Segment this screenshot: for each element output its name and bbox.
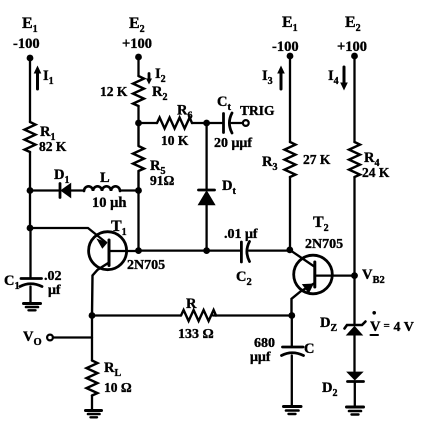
label 10 uh: [92, 195, 126, 211]
wire RL to ground: [91, 396, 93, 410]
svg-text:=: =: [384, 320, 390, 332]
wire R2 to junction: [137, 106, 139, 123]
svg-text:-100: -100: [13, 36, 40, 52]
node junction Dt / base line: [203, 247, 210, 254]
resistor R6: [157, 118, 192, 129]
svg-text:24 K: 24 K: [362, 165, 390, 180]
label E2 +100 right: [337, 14, 367, 55]
node TRIG input terminal: [243, 120, 249, 126]
label VB2: [362, 267, 385, 286]
resistor RL: [87, 361, 98, 396]
wire rail E2-right to VB2: [353, 177, 355, 276]
node VO output terminal: [47, 335, 53, 341]
wire rail E1-right to T2: [289, 177, 291, 250]
svg-text:μf: μf: [48, 283, 61, 298]
node junction L/R5: [135, 187, 142, 194]
svg-text:+100: +100: [122, 36, 152, 52]
label D1: [54, 167, 69, 186]
label R1 82 K: [39, 124, 67, 154]
label R2: [152, 84, 167, 103]
current arrow I3: [277, 66, 285, 90]
label T2: [313, 214, 329, 234]
node junction R3 / C2 / T2 collector: [286, 247, 293, 254]
label .02 uf: [44, 269, 62, 298]
label 12 K: [100, 84, 128, 99]
node VB2 junction: [351, 272, 358, 279]
transistor T2 collector lead: [290, 250, 314, 266]
label I3: [262, 68, 273, 87]
ground D2: [347, 407, 364, 415]
wire rail E2-left top: [137, 57, 139, 76]
wire base line Dt to C2: [207, 249, 240, 251]
label Dt: [222, 178, 236, 197]
svg-text:V: V: [370, 319, 381, 335]
svg-text:12 K: 12 K: [100, 84, 128, 99]
wire rail E1-right top: [289, 56, 291, 142]
wire R node to resistor R: [92, 314, 181, 316]
resistor R3: [285, 142, 296, 177]
wire Ct junction down to Dt: [205, 123, 207, 189]
label TRIG: [240, 103, 275, 118]
current arrow I2: [146, 74, 152, 85]
wire R6 to Ct junction: [192, 122, 207, 124]
node junction R / T2 emitter / C: [288, 312, 295, 319]
node junction T1 emitter wire: [27, 225, 34, 232]
svg-text:20 μμf: 20 μμf: [214, 136, 252, 151]
label T1: [111, 218, 127, 238]
wire VB2 to DZ: [353, 276, 355, 324]
label C2: [236, 269, 252, 288]
label 27 K: [303, 152, 331, 167]
svg-text:.01 μf: .01 μf: [224, 227, 258, 242]
label R5: [150, 158, 165, 177]
svg-text:91Ω: 91Ω: [150, 173, 175, 188]
label Ct: [217, 94, 231, 113]
wire C1 to ground: [29, 287, 31, 304]
svg-text:TRIG: TRIG: [240, 103, 275, 118]
wire rail E2-right top: [353, 56, 355, 142]
wire junction to Ct: [207, 122, 222, 124]
label R4: [364, 150, 379, 169]
label VO: [23, 329, 42, 348]
label R: [186, 296, 197, 312]
svg-text:μμf: μμf: [250, 350, 271, 365]
label E1 -100: [13, 15, 40, 52]
label 24 K: [362, 165, 390, 180]
label 10 K: [161, 133, 189, 148]
resistor R1: [25, 122, 36, 152]
node junction D1 wire: [27, 187, 34, 194]
svg-text:R: R: [186, 296, 197, 312]
label I2: [155, 66, 166, 85]
capacitor C 680uuf: [282, 347, 304, 356]
wire rail E2-left to T1 base: [137, 191, 139, 251]
wire rail E1-left lower: [29, 191, 31, 229]
zener diode DZ: [345, 322, 366, 335]
svg-text:2N705: 2N705: [305, 237, 343, 252]
current arrow I4: [340, 67, 348, 91]
current arrow I1: [34, 66, 42, 90]
label 10 ohm: [104, 380, 132, 395]
label C: [304, 341, 314, 357]
transistor T1: [89, 232, 139, 316]
node junction T1 collector / R / VO: [89, 312, 96, 319]
svg-text:-100: -100: [272, 39, 299, 55]
svg-text:133 Ω: 133 Ω: [178, 327, 214, 342]
label 2N705 T2: [305, 237, 343, 252]
transistor T2: [292, 255, 355, 315]
ground C: [284, 407, 302, 415]
node junction T1 base / rail: [135, 247, 142, 254]
label E2 +100: [122, 15, 152, 52]
label 20 uuf: [214, 136, 252, 151]
node junction R6/Ct/Dt: [203, 120, 210, 127]
wire Ct to TRIG terminal: [232, 122, 243, 124]
wire rail E1-left top: [29, 58, 31, 122]
resistor R2: [133, 76, 144, 106]
svg-text:10 K: 10 K: [161, 133, 189, 148]
label R3: [262, 154, 277, 173]
label E1 -100 right: [272, 14, 299, 55]
node E1 right supply terminal: [287, 53, 294, 60]
svg-text:2N705: 2N705: [127, 258, 165, 273]
svg-text:27 K: 27 K: [303, 152, 331, 167]
svg-text:.02: .02: [44, 269, 62, 284]
label I1: [43, 68, 54, 87]
label I4: [328, 68, 339, 87]
node E2 right supply terminal: [351, 53, 358, 60]
ground C1: [24, 304, 41, 311]
label .01 uf: [224, 227, 258, 242]
wire T1 emitter lead: [30, 228, 106, 243]
svg-text:82 K: 82 K: [39, 139, 67, 154]
label 91 ohm: [150, 173, 175, 188]
wire rail E1-left mid: [29, 152, 31, 191]
wire D2 to ground: [354, 382, 356, 407]
transistor T1 emitter arrow: [96, 238, 107, 248]
label 2N705 T1: [127, 258, 165, 273]
label L: [100, 170, 110, 186]
diode Dt: [199, 190, 215, 205]
capacitor C2: [241, 242, 249, 263]
label RL: [104, 360, 121, 379]
label C1: [4, 273, 20, 292]
wire to diode D1: [30, 189, 59, 191]
wire rail E1-left to C1: [29, 228, 31, 278]
diode D1: [60, 184, 71, 198]
label R6: [177, 103, 192, 122]
svg-text:680: 680: [254, 336, 275, 351]
label 680 uuf: [250, 336, 275, 365]
wire junction to R6: [139, 122, 158, 124]
label V = 4 V: [370, 311, 414, 335]
capacitor Ct: [224, 113, 233, 133]
wire DZ to D2: [353, 335, 355, 372]
diode D2: [348, 372, 364, 381]
wire Dt to base line: [205, 205, 207, 251]
svg-text:4 V: 4 V: [394, 320, 414, 335]
wire C to ground: [291, 356, 293, 406]
label DZ: [320, 315, 337, 334]
wire D1 to L: [71, 189, 85, 191]
resistor R5: [133, 123, 144, 191]
ground RL: [86, 411, 102, 418]
wire L to rail E2-left: [120, 189, 139, 191]
svg-text:10 μh: 10 μh: [92, 195, 126, 211]
wire T2 emitter node down to C: [291, 316, 293, 348]
wire T1 collector node down to RL: [91, 316, 93, 361]
svg-text:10 Ω: 10 Ω: [104, 380, 132, 395]
wire R to T2 emitter node: [213, 314, 292, 316]
label D2: [322, 380, 337, 399]
wire VO to RL rail: [53, 336, 92, 338]
wire base line T1 to Dt: [139, 249, 207, 251]
transistor T2 emitter arrow: [302, 284, 314, 294]
inductor L: [84, 186, 120, 191]
label 133 ohm: [178, 327, 214, 342]
node junction R2/R5/R6: [135, 120, 142, 127]
node E2 left supply terminal: [135, 54, 142, 61]
resistor R: [181, 310, 216, 321]
svg-text:L: L: [100, 170, 110, 186]
svg-text:C: C: [304, 341, 314, 357]
wire C2 to T2 collector node: [249, 249, 290, 251]
svg-text:+100: +100: [337, 39, 367, 55]
node E1 left supply terminal: [27, 55, 34, 62]
resistor R4: [349, 142, 360, 177]
capacitor C1: [20, 279, 42, 287]
